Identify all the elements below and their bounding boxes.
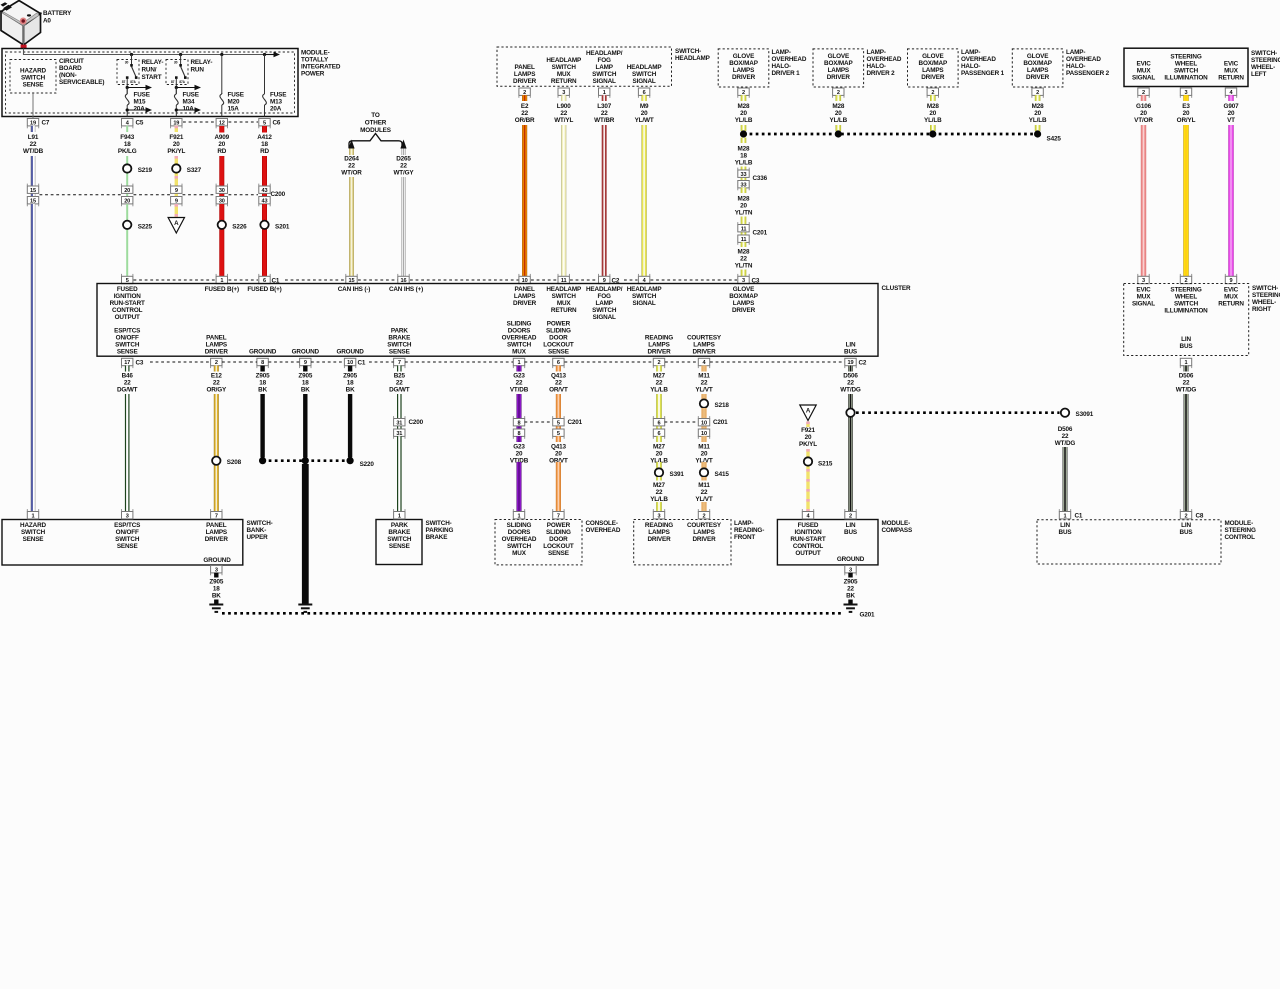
svg-text:DRIVER: DRIVER	[205, 536, 229, 543]
svg-text:MUX: MUX	[557, 71, 572, 78]
svg-text:PK/LG: PK/LG	[118, 148, 137, 155]
wire F943 18 PK/LG lower	[126, 204, 128, 276]
switch-parking brake box	[376, 520, 422, 565]
svg-text:9: 9	[304, 360, 307, 366]
svg-text:DRIVER: DRIVER	[827, 74, 851, 81]
svg-text:RETURN: RETURN	[1218, 301, 1244, 308]
svg-text:SWITCH-: SWITCH-	[247, 520, 273, 527]
wire hazard to pin	[32, 93, 34, 119]
svg-text:20: 20	[701, 451, 708, 458]
svg-text:30: 30	[219, 188, 225, 194]
svg-text:POWER: POWER	[547, 321, 571, 328]
splice dot S220 b	[302, 457, 309, 464]
svg-text:LAMPS: LAMPS	[206, 529, 227, 536]
svg-text:11: 11	[741, 226, 747, 232]
svg-text:LIN: LIN	[846, 522, 856, 529]
svg-text:WT/OR: WT/OR	[341, 170, 362, 177]
svg-text:DRIVER: DRIVER	[513, 78, 537, 85]
connector C201 pins 11	[738, 225, 749, 232]
wire E2 22 OR/BR	[522, 125, 527, 276]
svg-text:1: 1	[518, 360, 521, 366]
connector C200 pins 43	[259, 186, 270, 193]
svg-text:EVIC: EVIC	[1224, 287, 1239, 294]
svg-text:S415: S415	[715, 471, 730, 478]
svg-text:M28: M28	[1032, 103, 1045, 110]
wire F921 20 PK/YL compass stub	[806, 422, 809, 428]
svg-text:IGNITION: IGNITION	[795, 529, 823, 536]
svg-text:20: 20	[1034, 110, 1041, 117]
svg-text:18: 18	[124, 141, 131, 148]
ground symbol G201	[844, 605, 858, 612]
wire M28 20 YL/TN	[741, 217, 747, 236]
svg-text:6: 6	[557, 360, 560, 366]
svg-text:10: 10	[347, 360, 353, 366]
svg-text:SWITCH: SWITCH	[507, 342, 532, 349]
svg-text:8: 8	[518, 420, 521, 426]
splice S208	[212, 457, 220, 465]
svg-text:BK: BK	[212, 593, 221, 600]
wire Z905 22 BK compass stub	[848, 573, 852, 578]
svg-text:SIGNAL: SIGNAL	[1132, 75, 1155, 82]
svg-text:SIGNAL: SIGNAL	[633, 300, 656, 307]
svg-text:YL/TN: YL/TN	[735, 210, 753, 217]
svg-text:20: 20	[1228, 110, 1235, 117]
svg-text:DG/WT: DG/WT	[389, 387, 410, 394]
wire L91 22 WT/DB lower	[31, 204, 36, 512]
cluster pin 3 top	[738, 276, 749, 283]
svg-text:GROUND: GROUND	[336, 349, 364, 356]
wire G23 20 VT/DB	[517, 436, 522, 442]
wire G23 22 VT/DB	[517, 394, 522, 429]
svg-text:CIRCUIT: CIRCUIT	[59, 58, 84, 65]
svg-text:19: 19	[173, 120, 179, 126]
cluster pin 9 bottom	[300, 358, 311, 365]
svg-text:RETURN: RETURN	[1218, 75, 1244, 82]
svg-text:18: 18	[347, 380, 354, 387]
steering left pin 3	[1180, 88, 1191, 95]
svg-text:WHEEL: WHEEL	[1175, 61, 1197, 68]
svg-text:YL/LB: YL/LB	[650, 387, 668, 394]
wire L91 22 WT/DB	[31, 156, 36, 197]
svg-text:S226: S226	[232, 223, 247, 230]
svg-text:GLOVE: GLOVE	[922, 53, 943, 60]
svg-text:SENSE: SENSE	[117, 543, 138, 550]
svg-text:S225: S225	[138, 223, 153, 230]
wire D265 22 WT/GY	[401, 177, 406, 276]
wire M27 20 YL/LB	[656, 436, 662, 442]
svg-text:BK: BK	[346, 387, 355, 394]
svg-text:PANEL: PANEL	[206, 522, 227, 529]
steering left pin 2	[1138, 88, 1149, 95]
svg-text:G106: G106	[1136, 103, 1152, 110]
connector C201 pins 8	[513, 419, 524, 426]
wire Q413 22 OR/VT stub	[556, 366, 561, 372]
svg-text:CONSOLE-: CONSOLE-	[586, 520, 618, 527]
svg-text:DOORS: DOORS	[508, 529, 531, 536]
svg-text:STEERING: STEERING	[1225, 527, 1256, 534]
svg-text:19: 19	[30, 120, 36, 126]
wire M28 18 YL/LB stub	[741, 138, 747, 143]
svg-text:6: 6	[643, 90, 646, 96]
svg-text:ESP/TCS: ESP/TCS	[114, 522, 140, 529]
svg-text:FUSED: FUSED	[117, 286, 138, 293]
splice S201	[260, 221, 268, 229]
console-overhead box	[495, 520, 582, 565]
svg-text:SWITCH: SWITCH	[21, 529, 46, 536]
wire E12 22 OR/GY stub	[214, 366, 219, 372]
svg-text:1: 1	[32, 513, 35, 519]
fuse M15 20A	[127, 87, 147, 89]
svg-text:RUN: RUN	[191, 66, 205, 73]
cluster pin 10 bottom	[344, 358, 355, 365]
svg-text:START: START	[142, 74, 162, 81]
svg-text:SWITCH: SWITCH	[632, 71, 657, 78]
svg-text:C201: C201	[713, 419, 728, 426]
svg-text:LAMPS: LAMPS	[733, 300, 754, 307]
cluster pin 19 bottom	[845, 358, 856, 365]
svg-text:FUSE: FUSE	[134, 92, 150, 99]
svg-text:FRONT: FRONT	[734, 534, 755, 541]
svg-text:C201: C201	[568, 419, 583, 426]
svg-text:F921: F921	[801, 427, 815, 434]
compass ground pin 3	[845, 566, 856, 573]
wire B46 22 DG/WT stub	[125, 366, 130, 372]
connector C7 pin 19	[27, 119, 38, 126]
svg-text:33: 33	[741, 172, 747, 178]
off-page connector A compass	[800, 405, 816, 421]
svg-text:COURTESY: COURTESY	[687, 335, 722, 342]
svg-text:PASSENGER 1: PASSENGER 1	[961, 70, 1005, 77]
wire D506 22 WT/DG to steering control	[1063, 447, 1068, 512]
svg-text:RD: RD	[260, 148, 269, 155]
wire D264 22 WT/OR	[349, 177, 354, 276]
svg-text:RUN-START: RUN-START	[110, 300, 145, 307]
lamp-overhead halo-driver 1 box	[718, 49, 769, 87]
switch-steering wheel-left box	[1124, 48, 1248, 86]
svg-text:YL/VT: YL/VT	[695, 387, 713, 394]
switch-bank-upper pins	[27, 512, 38, 519]
svg-text:STEERING: STEERING	[1252, 292, 1280, 299]
wire G23 22 VT/DB stub	[517, 366, 522, 372]
splice S220 dotted links	[263, 459, 351, 462]
svg-text:LAMP-: LAMP-	[1066, 49, 1085, 56]
wire M28 18 YL/LB	[741, 167, 747, 181]
cluster pin 4 top	[638, 276, 649, 283]
wire M28 20 YL/LB stub passenger 2	[1035, 95, 1041, 101]
svg-text:YL/LB: YL/LB	[924, 117, 942, 124]
svg-text:BOX/MAP: BOX/MAP	[919, 60, 948, 67]
svg-text:M27: M27	[653, 444, 666, 451]
svg-text:3: 3	[562, 90, 565, 96]
svg-text:M11: M11	[698, 373, 710, 380]
svg-text:STEERING: STEERING	[1170, 54, 1201, 61]
wire M28 20 YL/TN stub	[741, 188, 747, 193]
splice S218	[700, 399, 708, 407]
svg-text:HEADLAMP/: HEADLAMP/	[586, 50, 623, 57]
lamp-reading pins	[653, 512, 664, 519]
dashed link TIPM pins	[183, 121, 216, 123]
svg-text:M27: M27	[653, 482, 666, 489]
svg-text:GROUND: GROUND	[292, 349, 320, 356]
svg-text:SWITCH: SWITCH	[592, 71, 617, 78]
svg-text:MUX: MUX	[1137, 294, 1152, 301]
wire A412 18 RD lower	[262, 204, 267, 276]
svg-text:LAMP: LAMP	[596, 64, 614, 71]
connector C6 pin 5	[259, 119, 270, 126]
steering right bottom pin 1	[1180, 358, 1191, 365]
wire L307 22 WT/BR	[602, 125, 607, 276]
svg-text:LAMP-: LAMP-	[867, 49, 886, 56]
battery positive terminal	[21, 45, 27, 49]
cluster pin 15	[346, 276, 357, 283]
svg-text:M34: M34	[183, 99, 196, 106]
svg-text:SWITCH-: SWITCH-	[675, 48, 701, 55]
ground symbol left-mid	[298, 605, 312, 612]
svg-text:MUX: MUX	[557, 300, 572, 307]
svg-text:INTEGRATED: INTEGRATED	[301, 64, 341, 71]
svg-text:22: 22	[656, 489, 663, 496]
wire Z905 22 BK compass	[848, 600, 852, 605]
svg-text:2: 2	[215, 360, 218, 366]
connector C200 pins 9	[171, 186, 182, 193]
svg-text:43: 43	[262, 188, 268, 194]
svg-text:S208: S208	[227, 459, 242, 466]
wire F943 18 PK/LG stub	[126, 126, 128, 132]
svg-text:87: 87	[171, 80, 175, 84]
svg-text:BUS: BUS	[1180, 529, 1193, 536]
svg-text:DRIVER: DRIVER	[732, 307, 756, 314]
svg-text:SWITCH-: SWITCH-	[426, 520, 452, 527]
svg-text:22: 22	[555, 380, 562, 387]
svg-text:BK: BK	[258, 387, 267, 394]
svg-text:SWITCH: SWITCH	[552, 64, 577, 71]
svg-text:S218: S218	[715, 402, 730, 409]
svg-text:LAMPS: LAMPS	[693, 342, 714, 349]
svg-text:C1: C1	[358, 360, 366, 367]
halo passenger 1 pin 2	[927, 88, 938, 95]
svg-text:M13: M13	[270, 99, 283, 106]
connector C336 pins 33	[738, 170, 749, 177]
cluster pin 10 top	[519, 276, 530, 283]
svg-text:SWITCH-: SWITCH-	[1252, 285, 1278, 292]
svg-text:SWITCH: SWITCH	[1174, 301, 1199, 308]
svg-text:22: 22	[348, 163, 355, 170]
svg-text:10A: 10A	[183, 106, 195, 113]
svg-text:UPPER: UPPER	[247, 534, 269, 541]
svg-text:BRAKE: BRAKE	[388, 529, 410, 536]
svg-text:11: 11	[741, 237, 747, 243]
svg-text:IGNITION: IGNITION	[114, 293, 142, 300]
svg-text:LAMPS: LAMPS	[648, 529, 669, 536]
svg-text:20A: 20A	[270, 106, 282, 113]
svg-text:BOX/MAP: BOX/MAP	[1023, 60, 1052, 67]
svg-text:BUS: BUS	[1059, 529, 1072, 536]
cluster pin 5	[122, 276, 133, 283]
svg-text:20A: 20A	[134, 106, 146, 113]
svg-text:DRIVER: DRIVER	[921, 74, 945, 81]
svg-text:RUN-START: RUN-START	[790, 536, 825, 543]
headlamp switch pin 3	[558, 88, 569, 95]
ground dotted bus	[222, 612, 843, 615]
wire L900 22 WT/YL stub	[561, 95, 566, 101]
wire M28 22 YL/TN	[741, 270, 747, 277]
svg-text:D506: D506	[1179, 373, 1194, 380]
svg-text:BUS: BUS	[844, 349, 857, 356]
splice S3091	[1061, 409, 1069, 417]
svg-text:SENSE: SENSE	[548, 349, 569, 356]
svg-text:SLIDING: SLIDING	[546, 529, 571, 536]
svg-text:22: 22	[1062, 433, 1069, 440]
svg-text:MODULE-: MODULE-	[882, 520, 911, 527]
svg-text:DRIVER: DRIVER	[692, 349, 716, 356]
svg-text:YL/LB: YL/LB	[1029, 117, 1047, 124]
svg-text:EVIC: EVIC	[1224, 61, 1239, 68]
svg-text:WHEEL: WHEEL	[1175, 294, 1197, 301]
svg-text:E12: E12	[211, 373, 222, 380]
cluster pin 1 bottom	[513, 358, 524, 365]
svg-text:C200: C200	[271, 191, 286, 198]
svg-text:L91: L91	[28, 134, 39, 141]
svg-text:17: 17	[124, 360, 130, 366]
svg-text:LAMP-: LAMP-	[961, 49, 980, 56]
wire A909 20 RD stub	[219, 126, 224, 133]
svg-text:SWITCH: SWITCH	[552, 293, 577, 300]
svg-text:ILLUMINATION: ILLUMINATION	[1164, 75, 1208, 82]
svg-text:BRAKE: BRAKE	[388, 335, 410, 342]
svg-text:CLUSTER: CLUSTER	[882, 285, 911, 292]
svg-text:DRIVER: DRIVER	[205, 349, 229, 356]
relay RUN/START	[117, 55, 139, 95]
svg-text:RD: RD	[217, 148, 226, 155]
svg-text:MUX: MUX	[512, 550, 527, 557]
svg-text:22: 22	[213, 380, 220, 387]
svg-text:HEADLAMP/: HEADLAMP/	[586, 286, 623, 293]
svg-text:DRIVER: DRIVER	[692, 536, 716, 543]
svg-text:F921: F921	[169, 134, 183, 141]
svg-text:MODULE-: MODULE-	[301, 50, 330, 57]
headlamp switch pin 2	[519, 88, 530, 95]
wire G907 20 VT	[1228, 125, 1233, 276]
cluster box	[97, 284, 878, 357]
svg-text:C200: C200	[409, 419, 424, 426]
svg-text:WHEEL-: WHEEL-	[1251, 64, 1275, 71]
svg-text:DRIVER: DRIVER	[647, 349, 671, 356]
wire L91 22 WT/DB stub	[31, 126, 36, 132]
svg-text:CONTROL: CONTROL	[112, 307, 143, 314]
svg-text:(NON-: (NON-	[59, 72, 77, 79]
module-steering control box	[1037, 520, 1221, 564]
svg-text:OTHER: OTHER	[365, 119, 387, 126]
cluster pin 4 bottom	[698, 358, 709, 365]
svg-text:WT/YL: WT/YL	[554, 117, 573, 124]
wire M9 20 YL/WT stub	[642, 95, 647, 101]
svg-text:ESP/TCS: ESP/TCS	[114, 328, 140, 335]
svg-text:SENSE: SENSE	[23, 536, 44, 543]
svg-text:SIGNAL: SIGNAL	[593, 78, 616, 85]
wire Z905 18 BK stub x262.6	[260, 366, 264, 372]
svg-text:20: 20	[805, 434, 812, 441]
lamp-overhead halo-driver 2 box	[813, 49, 864, 87]
svg-text:87: 87	[122, 80, 126, 84]
svg-text:LOCKOUT: LOCKOUT	[543, 543, 574, 550]
svg-text:LAMPS: LAMPS	[514, 71, 535, 78]
wire A412 18 RD stub	[262, 126, 267, 133]
svg-text:2: 2	[1036, 90, 1039, 96]
svg-text:LAMPS: LAMPS	[206, 342, 227, 349]
svg-text:BOX/MAP: BOX/MAP	[729, 293, 758, 300]
svg-text:3: 3	[1185, 90, 1188, 96]
arrow up D265	[400, 140, 406, 149]
cluster pin 6 bottom	[553, 358, 564, 365]
wire B25 22 DG/WT lower	[397, 436, 402, 511]
svg-text:D265: D265	[396, 156, 411, 163]
svg-text:SWITCH: SWITCH	[1174, 68, 1199, 75]
svg-text:OR/GY: OR/GY	[206, 387, 227, 394]
svg-text:HALO-: HALO-	[772, 63, 791, 70]
svg-text:YL/VT: YL/VT	[695, 496, 713, 503]
svg-text:BOARD: BOARD	[59, 65, 82, 72]
splice S391	[655, 468, 663, 476]
steering control pin 2 C8	[1180, 512, 1191, 519]
connector C5 pin 4	[122, 119, 133, 126]
svg-text:PK/YL: PK/YL	[167, 148, 185, 155]
svg-text:VT/OR: VT/OR	[1134, 117, 1153, 124]
svg-text:3: 3	[658, 513, 661, 519]
svg-text:TOTALLY: TOTALLY	[301, 57, 329, 64]
svg-text:5: 5	[557, 420, 560, 426]
splice dot passenger 2	[1034, 130, 1041, 137]
svg-text:FOG: FOG	[598, 293, 612, 300]
svg-text:M28: M28	[832, 103, 845, 110]
svg-text:22: 22	[1183, 380, 1190, 387]
wire E3 20 OR/YL	[1183, 125, 1188, 276]
svg-text:2: 2	[742, 90, 745, 96]
steering control pin 1 C1	[1059, 512, 1070, 519]
fuse M20 15A	[221, 55, 223, 95]
wire A909 20 RD lower	[219, 204, 224, 276]
svg-text:22: 22	[521, 110, 528, 117]
wire A412 18 RD	[262, 156, 267, 197]
svg-text:M28: M28	[738, 196, 751, 203]
wire M11 22 YL/VT	[701, 394, 706, 400]
svg-text:5: 5	[557, 431, 560, 437]
wire M28 20 YL/LB stub driver 1	[741, 95, 747, 101]
cluster top dashed links	[134, 279, 216, 281]
wire Z905 18 BK bank stub	[214, 573, 218, 578]
svg-text:LIN: LIN	[1181, 522, 1191, 529]
svg-text:S215: S215	[818, 461, 833, 468]
cluster bottom dashed links	[150, 361, 211, 363]
svg-text:C201: C201	[753, 230, 768, 237]
steering right pin 3	[1138, 276, 1149, 283]
svg-text:S219: S219	[138, 167, 153, 174]
svg-text:C336: C336	[753, 175, 768, 182]
wire battery feed bus	[24, 49, 274, 55]
svg-text:BOX/MAP: BOX/MAP	[729, 60, 758, 67]
lamp-reading-front box	[634, 520, 731, 565]
svg-text:VT: VT	[1227, 117, 1235, 124]
splice S415	[700, 468, 708, 476]
wire G106 20 VT/OR	[1141, 125, 1146, 276]
svg-text:2: 2	[837, 90, 840, 96]
wire B46 22 DG/WT	[125, 394, 130, 512]
svg-text:9: 9	[175, 198, 178, 204]
svg-text:22: 22	[701, 380, 708, 387]
svg-text:EVIC: EVIC	[1136, 61, 1151, 68]
wire F921 20 PK/YL	[175, 156, 178, 197]
svg-text:A: A	[806, 407, 811, 414]
splice S225	[123, 221, 131, 229]
